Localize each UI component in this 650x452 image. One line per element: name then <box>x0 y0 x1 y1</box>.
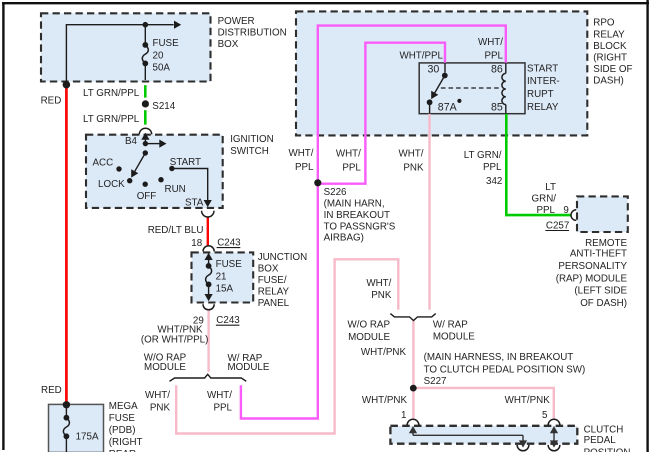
svg-text:1: 1 <box>401 410 406 421</box>
svg-text:PPL: PPL <box>213 403 232 414</box>
svg-text:WHT/: WHT/ <box>336 148 361 159</box>
svg-text:START: START <box>527 63 558 74</box>
svg-text:MODULE: MODULE <box>228 362 270 373</box>
svg-text:DASH): DASH) <box>593 76 623 87</box>
svg-text:(RAP) MODULE: (RAP) MODULE <box>556 273 628 284</box>
svg-text:IGNITION: IGNITION <box>230 134 274 145</box>
svg-text:IN BREAKOUT: IN BREAKOUT <box>324 210 390 221</box>
svg-text:(LEFT SIDE: (LEFT SIDE <box>574 286 627 297</box>
svg-text:PPL: PPL <box>536 205 555 216</box>
svg-text:JUNCTION: JUNCTION <box>258 252 308 263</box>
svg-text:S214: S214 <box>152 101 175 112</box>
svg-text:21: 21 <box>216 272 227 283</box>
svg-text:C243: C243 <box>217 238 241 249</box>
svg-text:LT GRN/PPL: LT GRN/PPL <box>83 114 140 125</box>
svg-text:ANTI-THEFT: ANTI-THEFT <box>570 248 627 259</box>
svg-text:B4: B4 <box>125 136 138 147</box>
svg-text:(MAIN HARN,: (MAIN HARN, <box>324 199 385 210</box>
svg-text:ACC: ACC <box>93 157 114 168</box>
svg-text:TO PASSNGR'S: TO PASSNGR'S <box>324 222 396 233</box>
svg-text:PPL: PPL <box>342 162 361 173</box>
svg-text:C257: C257 <box>546 221 569 232</box>
svg-text:WHT/: WHT/ <box>366 278 391 289</box>
svg-text:RED: RED <box>41 385 62 396</box>
svg-text:INTER-: INTER- <box>527 76 560 87</box>
svg-text:BLOCK: BLOCK <box>593 41 627 52</box>
svg-text:WHT/: WHT/ <box>207 390 232 401</box>
svg-text:PNK: PNK <box>371 290 392 301</box>
svg-text:FUSE: FUSE <box>216 259 243 270</box>
svg-text:RELAY: RELAY <box>593 29 625 40</box>
svg-text:342: 342 <box>486 176 502 187</box>
svg-text:FUSE: FUSE <box>153 38 180 49</box>
svg-text:C243: C243 <box>216 315 240 326</box>
svg-text:S226: S226 <box>324 187 347 198</box>
svg-text:RUPT: RUPT <box>527 89 554 100</box>
svg-text:9: 9 <box>563 205 568 216</box>
svg-text:RELAY: RELAY <box>527 102 559 113</box>
svg-text:TO CLUTCH PEDAL POSITION SW): TO CLUTCH PEDAL POSITION SW) <box>424 364 586 375</box>
svg-text:86: 86 <box>491 63 503 75</box>
svg-text:S227: S227 <box>424 376 447 387</box>
svg-text:WHT/PPL: WHT/PPL <box>399 50 443 61</box>
svg-text:(MAIN HARNESS, IN BREAKOUT: (MAIN HARNESS, IN BREAKOUT <box>424 352 574 363</box>
svg-text:MODULE: MODULE <box>348 332 390 343</box>
svg-text:RED/LT BLU: RED/LT BLU <box>148 225 204 236</box>
svg-text:LOCK: LOCK <box>98 179 125 190</box>
svg-text:85: 85 <box>491 102 503 114</box>
svg-text:(PDB): (PDB) <box>109 425 136 436</box>
svg-text:18: 18 <box>191 238 202 249</box>
svg-text:POWER: POWER <box>218 16 255 27</box>
svg-text:SIDE OF: SIDE OF <box>593 64 632 75</box>
svg-text:GRN/: GRN/ <box>532 194 557 205</box>
svg-text:W/ RAP: W/ RAP <box>433 319 468 330</box>
svg-text:FUSE: FUSE <box>109 413 136 424</box>
svg-text:15A: 15A <box>216 284 234 295</box>
svg-text:PNK: PNK <box>150 403 171 414</box>
svg-text:W/O RAP: W/O RAP <box>348 320 391 331</box>
svg-text:PPL: PPL <box>483 162 502 173</box>
svg-text:PERSONALITY: PERSONALITY <box>558 261 627 272</box>
svg-text:MODULE: MODULE <box>144 362 186 373</box>
svg-text:POSITION: POSITION <box>584 448 631 452</box>
svg-text:DISTRIBUTION: DISTRIBUTION <box>218 28 287 39</box>
svg-text:50A: 50A <box>153 63 171 74</box>
svg-text:RPO: RPO <box>593 18 615 29</box>
svg-text:(OR WHT/PPL): (OR WHT/PPL) <box>141 334 209 345</box>
svg-text:(RIGHT: (RIGHT <box>593 53 627 64</box>
svg-text:LT GRN/PPL: LT GRN/PPL <box>83 88 140 99</box>
svg-text:LT GRN/: LT GRN/ <box>464 150 502 161</box>
svg-text:WHT/: WHT/ <box>398 148 423 159</box>
svg-text:WHT/: WHT/ <box>478 37 503 48</box>
svg-text:STA: STA <box>185 198 204 209</box>
svg-text:WHT/: WHT/ <box>288 148 313 159</box>
svg-text:RED: RED <box>41 95 62 106</box>
svg-text:30: 30 <box>428 63 440 75</box>
svg-text:PPL: PPL <box>295 162 314 173</box>
svg-text:5: 5 <box>542 410 548 421</box>
svg-text:LT: LT <box>545 182 556 193</box>
svg-text:MODULE: MODULE <box>433 332 475 343</box>
svg-text:RUN: RUN <box>165 184 186 195</box>
svg-text:175A: 175A <box>76 432 99 443</box>
svg-text:BOX: BOX <box>258 263 279 274</box>
svg-text:START: START <box>170 157 201 168</box>
svg-text:WHT/PNK: WHT/PNK <box>362 395 408 406</box>
svg-text:RELAY: RELAY <box>258 286 290 297</box>
svg-text:WHT/: WHT/ <box>145 390 170 401</box>
svg-text:AIRBAG): AIRBAG) <box>324 233 364 244</box>
svg-text:(RIGHT: (RIGHT <box>109 437 143 448</box>
svg-text:PNK: PNK <box>403 162 424 173</box>
svg-text:WHT/PNK: WHT/PNK <box>361 347 407 358</box>
svg-text:SWITCH: SWITCH <box>230 146 269 157</box>
svg-text:PANEL: PANEL <box>258 298 290 309</box>
svg-text:WHT/PNK: WHT/PNK <box>505 395 551 406</box>
svg-text:OF DASH): OF DASH) <box>580 298 627 309</box>
svg-text:OFF: OFF <box>137 191 157 202</box>
svg-text:CLUTCH: CLUTCH <box>584 424 624 435</box>
svg-text:PPL: PPL <box>484 50 503 61</box>
svg-text:FUSE/: FUSE/ <box>258 275 287 286</box>
svg-text:MEGA: MEGA <box>109 401 138 412</box>
svg-text:20: 20 <box>153 51 164 62</box>
svg-text:PEDAL: PEDAL <box>584 435 617 446</box>
svg-text:87A: 87A <box>438 102 458 114</box>
svg-text:BOX: BOX <box>218 39 239 50</box>
